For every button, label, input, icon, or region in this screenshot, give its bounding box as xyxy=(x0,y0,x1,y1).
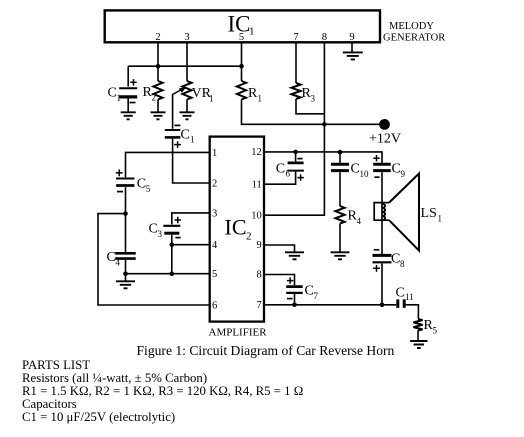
IC1 pin 8 label xyxy=(322,32,327,43)
wire IC1 pin 3 to VR1 xyxy=(186,43,188,81)
svg-text:C: C xyxy=(276,162,285,177)
resistor R3 xyxy=(291,83,315,104)
capacitor C1 (first, electrolytic) xyxy=(108,79,138,103)
svg-text:7: 7 xyxy=(314,291,319,301)
svg-text:5: 5 xyxy=(146,184,151,194)
svg-text:12: 12 xyxy=(251,147,262,158)
svg-text:2: 2 xyxy=(155,32,160,43)
svg-text:8: 8 xyxy=(257,270,262,281)
IC2 pin 10 label xyxy=(251,210,262,221)
node +12V terminal xyxy=(369,119,401,147)
svg-text:4: 4 xyxy=(357,216,362,226)
svg-text:9: 9 xyxy=(401,169,406,179)
ground below R5 xyxy=(410,341,427,348)
svg-text:LS: LS xyxy=(421,206,437,221)
potentiometer VR1 xyxy=(173,81,214,104)
wire C11 to R5 xyxy=(406,305,419,319)
wire C10 to R4 xyxy=(339,172,341,206)
svg-text:7: 7 xyxy=(257,300,262,311)
IC1 pin 7 label xyxy=(293,32,298,43)
wire C5 to junction xyxy=(125,187,127,213)
wire IC1 pin 8 down to IC2 pin 10 xyxy=(264,43,324,215)
svg-text:8: 8 xyxy=(400,259,405,269)
node junction R2 top xyxy=(156,64,161,69)
svg-text:C: C xyxy=(391,252,400,267)
wire R3 to pin-8 line xyxy=(296,99,324,114)
capacitor C8 (electrolytic) xyxy=(373,250,406,272)
wire IC2 pin 4 stub xyxy=(172,244,210,246)
wire IC1 pin 5 to R1 xyxy=(241,43,243,81)
wire IC2 pin 3 to C3 xyxy=(172,213,210,225)
wire C6 top lead xyxy=(295,152,297,161)
wire IC2 pin 8 to C7 xyxy=(264,275,295,286)
svg-text:C1 = 10 μF/25V (electrolytic): C1 = 10 μF/25V (electrolytic) xyxy=(22,410,175,424)
svg-text:IC: IC xyxy=(225,215,247,240)
wire IC1 pin 9 to ground xyxy=(351,43,353,53)
resistor R1 xyxy=(237,81,262,104)
node junction +12V rail xyxy=(322,122,327,127)
IC2 pin 7 label xyxy=(257,300,262,311)
wire VR1 to ground xyxy=(186,100,188,113)
IC U1 (IC1 melody generator box) xyxy=(105,10,380,42)
parts list text xyxy=(22,358,303,424)
node junction C6 xyxy=(293,150,298,155)
ground below VR1 xyxy=(180,112,195,119)
ground below C4 xyxy=(116,281,135,288)
IC2 pin 4 label xyxy=(212,240,218,251)
wire C4 junction to ground xyxy=(125,274,127,282)
svg-text:5: 5 xyxy=(433,326,438,336)
IC2 pin 2 label xyxy=(212,178,217,189)
wire IC2 pin 1 to C5 xyxy=(126,152,210,177)
svg-text:Figure 1: Circuit Diagram of C: Figure 1: Circuit Diagram of Car Reverse… xyxy=(137,343,395,358)
wire C7 to pin-7 line xyxy=(294,294,296,305)
wire C6 to IC2 pin 11 xyxy=(264,172,296,185)
wire IC1 pin 7 to R3 xyxy=(295,43,297,83)
svg-text:10: 10 xyxy=(360,169,370,179)
node junction C5/C4 xyxy=(123,211,128,216)
IC2 pin 9 label xyxy=(257,240,262,251)
svg-text:3: 3 xyxy=(184,32,189,43)
capacitor C4 xyxy=(107,250,136,268)
svg-text:R: R xyxy=(248,86,258,101)
svg-text:Resistors (all ¼-watt, ± 5% Ca: Resistors (all ¼-watt, ± 5% Carbon) xyxy=(22,371,207,385)
wire IC1 pin 2 to R2 xyxy=(157,43,159,81)
wire junction to C4 xyxy=(125,214,127,252)
IC2 pin 5 label xyxy=(212,269,217,280)
capacitor C3 (electrolytic) xyxy=(149,217,182,239)
label MELODY GENERATOR xyxy=(383,21,445,44)
svg-text:2: 2 xyxy=(246,231,252,243)
svg-text:9: 9 xyxy=(257,240,262,251)
node junction C3/pin4 xyxy=(170,242,175,247)
capacitor C5 (electrolytic) xyxy=(116,170,151,195)
ground below R2 xyxy=(151,112,166,119)
IC2 pin 3 label xyxy=(212,208,217,219)
wire C10 top lead xyxy=(339,152,341,163)
capacitor C7 (electrolytic) xyxy=(286,277,318,301)
capacitor C9 (electrolytic) xyxy=(373,155,405,179)
svg-text:MELODY: MELODY xyxy=(389,21,434,32)
svg-text:1: 1 xyxy=(190,135,195,145)
svg-text:AMPLIFIER: AMPLIFIER xyxy=(209,327,268,339)
capacitor C11 xyxy=(396,286,414,308)
resistor R5 xyxy=(413,318,437,336)
capacitor C10 xyxy=(331,162,369,180)
wire IC2 pin 9 to ground xyxy=(264,245,295,252)
capacitor C6 (electrolytic) xyxy=(276,159,304,181)
svg-text:C: C xyxy=(305,284,314,299)
svg-text:1: 1 xyxy=(117,93,122,103)
ground at IC2 pin 9 xyxy=(285,252,304,259)
wire IC2 pin 7 line to C11 xyxy=(264,304,396,306)
svg-text:4: 4 xyxy=(212,240,218,251)
wire R5 to ground xyxy=(417,331,419,342)
resistor R4 xyxy=(335,206,361,226)
svg-text:1: 1 xyxy=(258,94,263,104)
ground at IC1 pin 9 xyxy=(343,52,363,59)
svg-text:C: C xyxy=(396,286,405,301)
wire C1 to ground xyxy=(127,99,129,113)
speaker LS1 xyxy=(374,174,442,251)
svg-text:4: 4 xyxy=(116,258,121,268)
svg-text:+12V: +12V xyxy=(369,132,401,147)
IC2 pin 11 label xyxy=(252,179,262,190)
IC2 pin 8 label xyxy=(257,270,262,281)
svg-text:C: C xyxy=(107,250,116,265)
svg-text:5: 5 xyxy=(239,32,244,43)
svg-text:C: C xyxy=(137,177,146,192)
wire speaker to C8 xyxy=(381,220,383,254)
IC U2 (IC2 amplifier box) xyxy=(210,137,264,322)
ground below C1 xyxy=(121,112,136,119)
svg-text:6: 6 xyxy=(286,168,291,178)
svg-text:11: 11 xyxy=(252,179,262,190)
svg-text:5: 5 xyxy=(212,269,217,280)
label AMPLIFIER xyxy=(209,327,268,339)
IC1 pin 9 label xyxy=(349,32,354,43)
IC1 pin 5 label xyxy=(239,32,244,43)
node junction R1 top xyxy=(239,64,244,69)
node junction C4/ground xyxy=(123,271,128,276)
svg-text:1: 1 xyxy=(212,148,217,159)
wire junction to IC2 pin 6 xyxy=(98,214,210,305)
node junction C8/pin7 xyxy=(380,303,385,308)
caption Figure 1 xyxy=(137,343,395,358)
svg-text:9: 9 xyxy=(349,32,354,43)
node junction C7/pin7 xyxy=(292,303,297,308)
svg-text:8: 8 xyxy=(322,32,327,43)
svg-text:GENERATOR: GENERATOR xyxy=(383,33,445,44)
wire R1 to +12V node xyxy=(242,100,380,125)
svg-text:3: 3 xyxy=(158,229,163,239)
wire R4 to ground xyxy=(339,224,341,253)
wire bus to C1 top xyxy=(127,66,129,86)
svg-text:7: 7 xyxy=(293,32,298,43)
svg-text:2: 2 xyxy=(152,93,157,103)
wire IC2 pin 12 rail to C9 xyxy=(264,152,382,163)
svg-text:6: 6 xyxy=(212,300,217,311)
svg-text:2: 2 xyxy=(212,178,217,189)
svg-text:Capacitors: Capacitors xyxy=(22,397,77,411)
IC1 pin 3 label xyxy=(184,32,189,43)
wire C3 to pin-4/pin-5 xyxy=(171,235,173,274)
wire bus C1/R2/pin5 xyxy=(128,65,241,67)
wire VR1 wiper to C1 (second) xyxy=(172,94,174,129)
ground below R4 xyxy=(331,252,350,259)
svg-text:R1 = 1.5 KΩ, R2 = 1 KΩ, R3 = 1: R1 = 1.5 KΩ, R2 = 1 KΩ, R3 = 120 KΩ, R4,… xyxy=(22,384,303,398)
node junction C10 xyxy=(338,150,343,155)
resistor R2 xyxy=(143,81,163,103)
svg-text:1: 1 xyxy=(249,26,255,38)
svg-text:C: C xyxy=(108,86,117,101)
wire C1 (second) to IC2 pin 2 xyxy=(173,139,210,183)
IC1 pin 2 label xyxy=(155,32,160,43)
wire C4 to pin-5 line xyxy=(125,260,127,274)
svg-text:1: 1 xyxy=(209,94,214,104)
svg-text:10: 10 xyxy=(251,210,262,221)
IC2 pin 12 label xyxy=(251,147,262,158)
svg-text:3: 3 xyxy=(311,94,316,104)
svg-text:C: C xyxy=(351,162,360,177)
IC2 pin 6 label xyxy=(212,300,217,311)
svg-text:C: C xyxy=(181,128,190,143)
capacitor C1 (second, electrolytic) xyxy=(165,125,195,148)
wire C8 to pin-7 line xyxy=(381,264,383,305)
node junction pin5 line xyxy=(170,271,175,276)
svg-text:C: C xyxy=(149,222,158,237)
wire C9 to speaker xyxy=(381,172,383,202)
svg-text:3: 3 xyxy=(212,208,217,219)
IC2 pin 1 label xyxy=(212,148,217,159)
svg-text:1: 1 xyxy=(438,214,443,224)
svg-text:11: 11 xyxy=(405,292,414,302)
wire R2 to ground xyxy=(157,100,159,113)
wire pin-5 line xyxy=(126,273,210,275)
svg-text:C: C xyxy=(392,162,401,177)
